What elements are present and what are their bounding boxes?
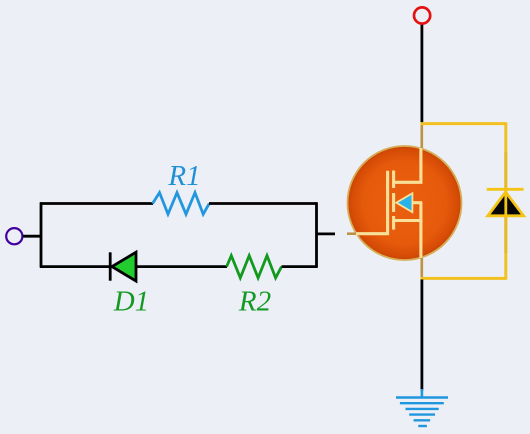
wire top right segment [209,202,318,205]
wire bottom middle segment [136,265,227,268]
wire port to node [23,235,42,238]
ground [396,389,448,426]
body circle [0,0,1,1]
wire drain top [420,25,423,123]
terminal T1 [414,7,430,23]
wire right vertical [315,202,318,267]
bottom connection [394,219,423,222]
wire top left segment [40,202,153,205]
wire gate stub [317,232,336,235]
svg-text:D1: D1 [113,286,149,318]
gate lead inside [356,171,388,234]
wire bottom right segment [282,265,318,268]
wire yellow right vertical [504,122,507,280]
wire left vertical [40,202,43,267]
pin source (tan) [420,256,423,278]
pin gate (tan) [347,232,360,235]
svg-text:R2: R2 [238,286,271,318]
diode D2 body [487,152,524,253]
svg-text:R1: R1 [167,160,200,192]
source mid connection [412,201,422,204]
resistor R2 [227,256,282,278]
port P1 [6,228,22,244]
drain connection [394,148,421,182]
source vertical [419,203,422,258]
pin drain (tan) [420,125,423,151]
transistor Q1 [347,125,462,279]
wire source to ground [420,280,423,391]
channel dashes [392,171,395,189]
wire bottom left segment [40,265,110,268]
source arrow [396,193,412,212]
resistor R1 [153,193,210,215]
diode D1 [110,252,136,281]
wire yellow bottom [421,277,507,280]
wire yellow top [421,122,507,125]
